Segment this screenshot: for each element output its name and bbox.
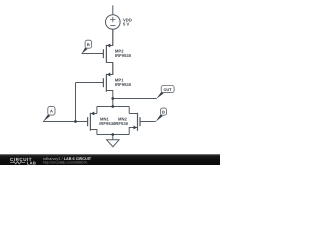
svg-text:B: B: [162, 109, 165, 114]
svg-text:OUT: OUT: [163, 88, 172, 92]
svg-text:A: A: [50, 108, 53, 113]
svg-text:http://circuitlab.com/c69307e: http://circuitlab.com/c69307e: [43, 160, 88, 164]
svg-text:IRF9530: IRF9530: [115, 53, 132, 58]
svg-text:IRF530: IRF530: [114, 121, 129, 126]
svg-text:LAB: LAB: [27, 160, 36, 165]
svg-text:IRF9530: IRF9530: [115, 82, 132, 87]
svg-text:5 V: 5 V: [123, 22, 130, 27]
svg-text:B: B: [87, 42, 90, 47]
